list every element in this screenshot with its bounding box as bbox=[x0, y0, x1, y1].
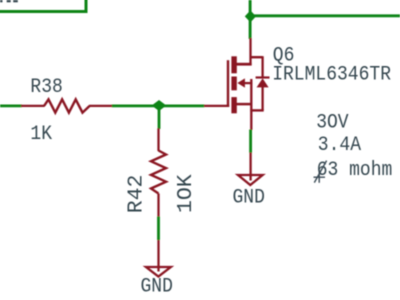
svg-text:R38: R38 bbox=[30, 75, 62, 98]
svg-text:R42: R42 bbox=[124, 175, 148, 214]
svg-text:1K: 1K bbox=[30, 122, 52, 145]
svg-text:1OK: 1OK bbox=[174, 174, 198, 213]
svg-text:3.4A: 3.4A bbox=[318, 133, 362, 156]
svg-text:IRLML6346TR: IRLML6346TR bbox=[272, 63, 391, 86]
svg-text:3OV: 3OV bbox=[316, 111, 349, 134]
svg-text:GND: GND bbox=[233, 186, 265, 209]
svg-text:GND: GND bbox=[141, 275, 173, 298]
svg-text:63 mohm: 63 mohm bbox=[317, 158, 393, 181]
